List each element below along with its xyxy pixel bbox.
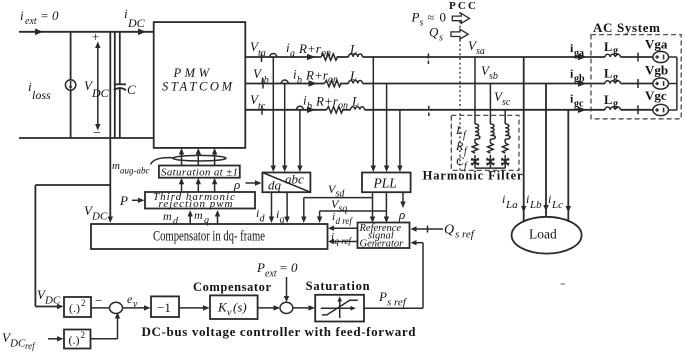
label P_ext = 0	[256, 260, 298, 280]
labels L_f R_f C_f	[455, 123, 468, 172]
label m_aug-abc	[112, 160, 150, 176]
dq-abc transform box	[262, 172, 310, 193]
Compensator in dq-frame box	[91, 224, 328, 249]
label V_DC	[84, 78, 110, 100]
svg-text:s: s	[420, 18, 424, 29]
wire Kv to summing junction 2	[258, 305, 280, 310]
svg-text:g: g	[613, 98, 618, 109]
wire -1 to Kv box	[179, 305, 210, 310]
tap bump phase C to dq-abc	[296, 106, 303, 172]
inductor L phase A	[349, 54, 363, 57]
stray mark	[561, 283, 566, 285]
label Saturation	[306, 279, 370, 293]
svg-text:Generator: Generator	[360, 239, 405, 250]
svg-text:m: m	[112, 160, 120, 172]
wire: DC bus vertical 1	[109, 32, 111, 138]
svg-text:PMW: PMW	[173, 66, 211, 80]
label Q_s with hollow arrow	[429, 25, 468, 44]
svg-text:P: P	[256, 260, 265, 275]
svg-text:b: b	[297, 75, 302, 86]
svg-text:(.): (.)	[69, 301, 80, 315]
inductor L_f A	[475, 124, 480, 139]
label PCC	[449, 0, 476, 12]
inductor L phase C	[351, 107, 365, 110]
label e_v	[127, 292, 138, 310]
svg-text:m: m	[163, 209, 172, 223]
svg-text:m: m	[194, 208, 203, 222]
tap phase C to PLL	[397, 110, 402, 172]
svg-text:ref: ref	[25, 341, 36, 351]
svg-text:sq: sq	[339, 204, 348, 215]
capacitor C_f A	[471, 158, 479, 165]
Load ellipse	[512, 217, 582, 254]
wire: AC neutral bus	[669, 57, 677, 110]
bundle ellipse	[173, 155, 226, 161]
svg-text:s: s	[439, 33, 443, 44]
capacitor C_f C	[501, 158, 509, 165]
svg-text:v: v	[227, 308, 232, 319]
resistor R_f B	[488, 143, 494, 153]
svg-text:sc: sc	[502, 97, 511, 108]
wire rho output of PLL	[398, 192, 406, 222]
wire i_d into compensator with label	[256, 192, 274, 224]
tap phase A to PLL	[371, 57, 376, 172]
svg-text:sb: sb	[489, 71, 498, 82]
leader curve from m_aug-abc	[151, 158, 175, 165]
svg-text:PLL: PLL	[373, 176, 397, 191]
svg-text:Saturation at ±1: Saturation at ±1	[161, 166, 238, 178]
svg-text:(.): (.)	[69, 333, 80, 347]
svg-text:+: +	[92, 29, 99, 44]
svg-text:L: L	[604, 40, 612, 54]
label V_sd	[328, 182, 345, 200]
wire: phase C line	[245, 107, 653, 113]
svg-text:R+r: R+r	[298, 41, 322, 56]
wire P_s ref back to reference generator	[364, 240, 423, 308]
svg-text:Vgb: Vgb	[645, 63, 668, 78]
svg-text:2: 2	[81, 298, 86, 308]
squarer box 2	[64, 330, 91, 349]
label P_s ref	[378, 289, 408, 309]
label i_ext = 0	[20, 8, 59, 27]
svg-text:Compensator: Compensator	[193, 280, 271, 294]
svg-text:d ref: d ref	[336, 216, 354, 226]
svg-text:L: L	[455, 123, 463, 137]
svg-text:i: i	[502, 192, 505, 206]
wire V_DCref into squarer 2	[48, 336, 64, 341]
label i_b R+r_on L (phase B)	[293, 67, 357, 87]
harmonic filter branch A wire	[474, 57, 476, 168]
label C	[127, 82, 136, 97]
wire: phase B line	[245, 80, 653, 86]
label V_DC (bottom)	[37, 287, 61, 307]
svg-text:DC: DC	[44, 295, 61, 307]
svg-text:on: on	[338, 101, 348, 112]
svg-text:abc: abc	[285, 172, 304, 187]
svg-text:ρ: ρ	[233, 177, 240, 192]
tick marks before sources	[637, 53, 639, 115]
svg-text:ext: ext	[265, 269, 277, 280]
wire i_d ref with label	[328, 211, 358, 231]
harmonic filter dashed box	[451, 115, 519, 170]
label V_DCref	[2, 330, 36, 351]
svg-text:Vga: Vga	[645, 37, 668, 52]
svg-text:= 0: = 0	[279, 260, 298, 275]
resistor R_f C	[502, 143, 508, 153]
wire: filter bottom bus	[475, 167, 505, 169]
labels i_La i_Lb i_Lc	[502, 192, 563, 211]
wire V_sq from PLL to compensator	[317, 192, 389, 223]
svg-text:Q: Q	[444, 223, 454, 238]
svg-text:C: C	[127, 82, 136, 97]
tick marks at PCC measurement point	[427, 54, 429, 117]
tap phase B to PLL	[384, 84, 389, 173]
tap bump phase B to dq-abc	[281, 80, 288, 172]
svg-text:La: La	[505, 199, 518, 211]
PMW STATCOM box	[154, 22, 246, 148]
svg-text:−: −	[93, 126, 101, 141]
label i_b R+r_on L (phase C)	[303, 93, 359, 113]
svg-text:tb: tb	[261, 75, 269, 86]
resistor R_f A	[472, 143, 478, 153]
svg-text:−1: −1	[157, 300, 171, 315]
svg-text:L: L	[349, 68, 357, 83]
wire: phase A line	[245, 54, 653, 60]
AC System dashed box	[591, 35, 681, 119]
svg-text:s ref: s ref	[455, 229, 476, 241]
svg-text:P: P	[411, 10, 420, 25]
compensator Kv(s) box	[210, 295, 258, 319]
label V_sa	[468, 38, 485, 57]
svg-text:ρ: ρ	[398, 207, 405, 222]
summing junction 1	[110, 302, 123, 313]
wire junction2 to saturation box	[293, 305, 315, 310]
wire P_ext into summing junction 2	[284, 277, 289, 302]
harmonic filter branch C wire	[504, 110, 506, 168]
svg-text:Vgc: Vgc	[645, 88, 667, 103]
caption DC-bus voltage controller	[142, 324, 417, 339]
svg-text:R+r: R+r	[305, 68, 329, 83]
svg-text:g: g	[613, 46, 618, 57]
label P_s ~ 0 with hollow arrow	[411, 10, 470, 29]
Third harmonic rejection pwm box	[145, 191, 255, 210]
svg-text:on: on	[328, 75, 338, 86]
svg-text:DC: DC	[9, 338, 26, 350]
label i_loss	[28, 79, 51, 102]
svg-text:ga: ga	[574, 48, 584, 59]
wire squarer2 to summing junction 1	[91, 313, 121, 339]
svg-text:Compensator in dq- frame: Compensator in dq- frame	[153, 229, 265, 245]
source Vga	[645, 37, 669, 63]
svg-text:on: on	[321, 48, 331, 59]
svg-text:PCC: PCC	[449, 0, 476, 12]
svg-text:i: i	[526, 192, 529, 206]
svg-text:DC: DC	[127, 16, 146, 30]
svg-text:≈: ≈	[428, 11, 435, 25]
svg-text:s ref: s ref	[387, 297, 408, 309]
svg-text:L: L	[351, 94, 359, 109]
svg-text:sa: sa	[476, 46, 485, 57]
label P arrow into Third harmonic box	[119, 193, 145, 208]
wire m_d with label	[163, 209, 193, 227]
svg-text:R+r: R+r	[315, 94, 339, 109]
svg-text:AC System: AC System	[593, 20, 660, 35]
tap bump phase A to dq-abc	[270, 54, 277, 173]
svg-text:a: a	[290, 49, 295, 60]
rho arrow into dq-abc	[233, 177, 262, 192]
svg-text:Q: Q	[429, 25, 439, 40]
svg-text:Lb: Lb	[529, 199, 542, 211]
label Compensator	[193, 280, 271, 294]
resistor R+r_on phase B	[325, 80, 342, 86]
tap phase B to Load	[543, 84, 548, 218]
capacitor C branch	[114, 32, 126, 138]
svg-text:Load: Load	[529, 227, 557, 242]
svg-text:P: P	[378, 289, 387, 304]
svg-text:dq: dq	[268, 178, 282, 193]
svg-text:2: 2	[81, 330, 86, 340]
label V_ta with tick	[250, 39, 266, 62]
tap phase C to Load	[566, 110, 571, 221]
label V_sb	[481, 63, 498, 82]
label V_tc with tick	[250, 92, 266, 115]
wire squarer1 to summing junction with minus	[91, 293, 110, 308]
svg-text:DC: DC	[91, 211, 108, 223]
wires Third-harmonic to Saturation (3 arrows)	[179, 178, 218, 192]
wire V_DC feedback from DC bus	[35, 138, 113, 309]
svg-text:L: L	[604, 67, 612, 81]
wire: DC-link top rail	[19, 29, 154, 36]
squarer box 1	[64, 297, 91, 317]
wire to -1 box	[123, 305, 151, 310]
capacitor C_f B	[486, 158, 494, 165]
V_DC measurement arrow with + and -	[92, 29, 101, 141]
saturation block	[315, 295, 364, 322]
svg-text:R: R	[455, 139, 464, 153]
summing junction 2	[280, 302, 293, 313]
wire: DC-link bottom rail	[19, 137, 154, 139]
gain -1 box	[151, 296, 179, 317]
inductor L phase B	[349, 81, 363, 84]
wire i_q into compensator with label	[276, 192, 290, 225]
svg-text:g: g	[613, 72, 618, 83]
tap phase A to Load	[521, 57, 526, 221]
svg-text:Saturation: Saturation	[306, 279, 370, 293]
inductor L_f B	[490, 124, 495, 139]
svg-text:−: −	[95, 293, 102, 308]
resistor R+r_on phase C	[327, 107, 344, 113]
label AC System	[593, 20, 660, 35]
harmonic filter branch B wire	[489, 84, 491, 169]
svg-text:L: L	[349, 42, 357, 57]
svg-text:= 0: = 0	[40, 8, 59, 23]
Reference signal generator box	[358, 223, 410, 250]
svg-text:P: P	[119, 193, 128, 208]
svg-text:DC-bus voltage controller with: DC-bus voltage controller with feed-forw…	[142, 324, 417, 339]
svg-text:loss: loss	[32, 88, 51, 102]
source Vgc	[645, 88, 669, 116]
inductor L_f C	[505, 124, 510, 139]
svg-text:DC: DC	[91, 86, 110, 100]
PLL box	[362, 173, 411, 193]
wire V_sd from PLL to compensator	[301, 192, 375, 223]
inductor L_g phase B with label	[604, 67, 620, 84]
wires Saturation to PMW (3 arrows)	[179, 148, 218, 166]
label V_tb with tick	[253, 66, 269, 89]
wire: DC bus vertical 2	[114, 32, 116, 138]
label Harmonic Filter	[423, 169, 523, 183]
labels i_ga i_gb i_gc	[570, 41, 585, 110]
svg-text:0: 0	[440, 10, 447, 25]
wire Q_s ref input	[411, 223, 476, 241]
svg-text:Harmonic Filter: Harmonic Filter	[423, 169, 523, 183]
svg-text:q ref: q ref	[335, 236, 353, 246]
wire i_q ref with label	[328, 231, 358, 246]
inductor L_g phase C with label	[604, 93, 620, 110]
wire m_q with label	[194, 208, 220, 226]
source Vgb	[645, 63, 669, 90]
svg-text:gc: gc	[574, 99, 584, 110]
svg-text:Lc: Lc	[551, 199, 563, 211]
current source i_loss branch	[65, 32, 75, 138]
svg-text:gb: gb	[574, 74, 585, 85]
svg-text:i: i	[20, 8, 24, 23]
svg-text:L: L	[604, 93, 612, 107]
svg-text:ext: ext	[25, 16, 37, 27]
label V_sc	[494, 89, 511, 108]
label i_DC	[124, 6, 146, 30]
label i_a R+r_on L (phase A)	[286, 40, 357, 60]
svg-text:aug-abc: aug-abc	[120, 166, 150, 176]
inductor L_g phase A with label	[604, 40, 620, 57]
label V_sq	[331, 197, 347, 215]
resistor R+r_on phase A	[321, 54, 338, 60]
PCC dashed line	[459, 12, 461, 174]
Saturation at +-1 box	[159, 166, 240, 179]
svg-text:b: b	[307, 101, 312, 112]
label V_DC (into compensator)	[84, 203, 108, 223]
svg-text:(s): (s)	[233, 300, 247, 315]
svg-text:i: i	[548, 192, 551, 206]
